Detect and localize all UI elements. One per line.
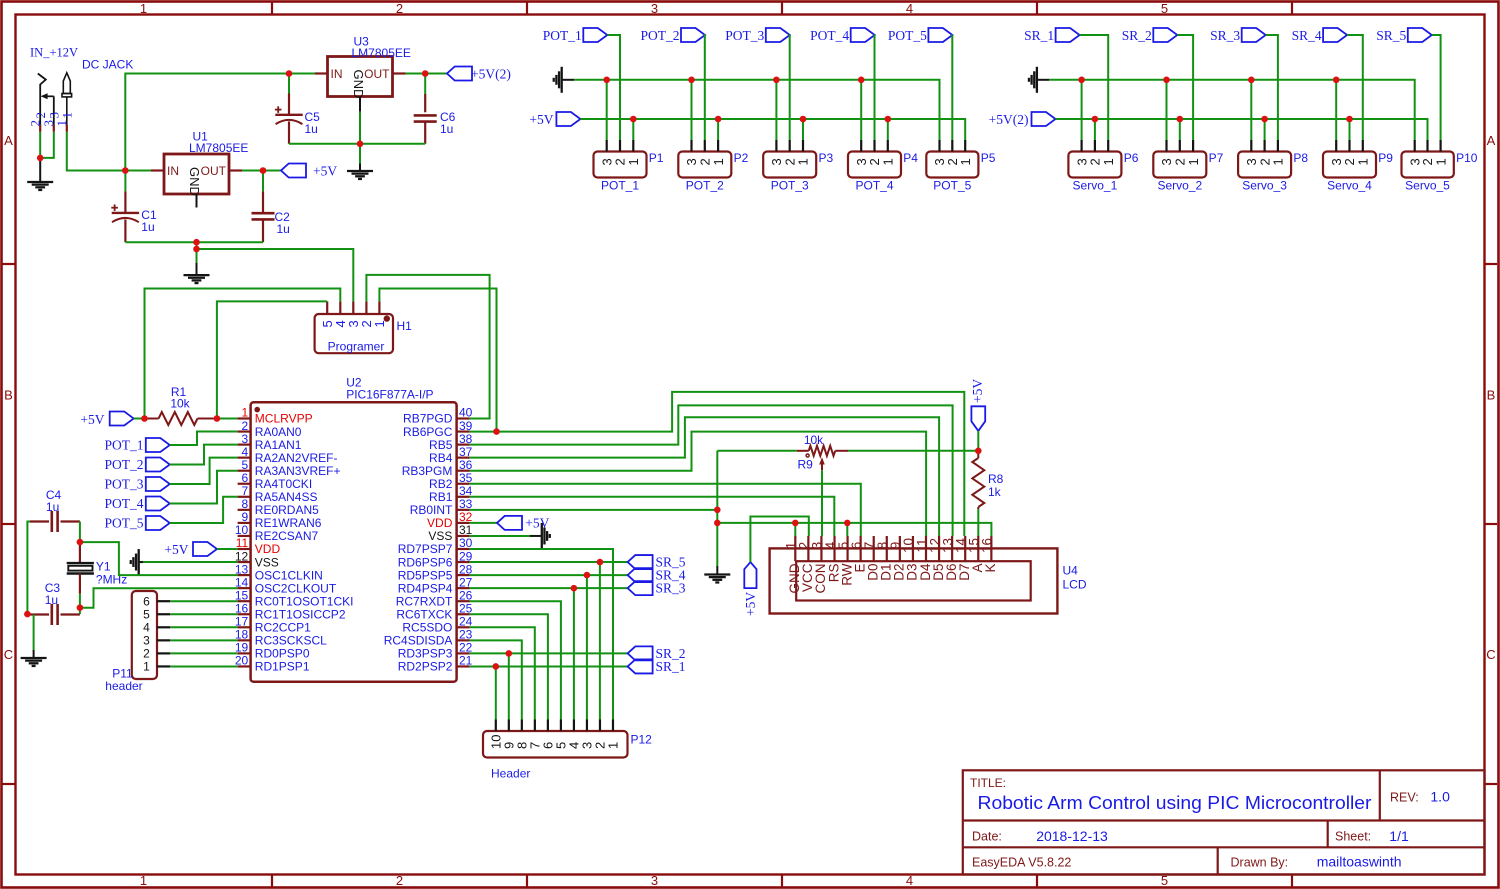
svg-text:3: 3	[651, 1, 658, 16]
svg-text:RD2PSP2: RD2PSP2	[398, 660, 453, 674]
svg-text:Date:: Date:	[972, 830, 1002, 844]
svg-text:POT_3: POT_3	[725, 28, 764, 43]
svg-text:IN: IN	[331, 67, 343, 81]
wire ground stem	[196, 242, 198, 263]
svg-text:+5V(2): +5V(2)	[471, 67, 511, 82]
wire P11 pin 4 to U2 pin 17	[170, 626, 237, 628]
svg-text:VSS: VSS	[255, 555, 279, 569]
svg-text:1u: 1u	[45, 593, 58, 607]
connector P11 header	[132, 591, 157, 679]
wire +5V(2) to P8 pin 2	[1264, 119, 1266, 140]
wire R9 right to +5V	[848, 450, 978, 452]
svg-text:P8: P8	[1293, 151, 1308, 165]
svg-text:OSC1CLKIN: OSC1CLKIN	[255, 568, 323, 582]
svg-text:B: B	[4, 388, 13, 403]
wire to LCD pin5 RW	[846, 523, 848, 536]
pin IN of U1	[151, 169, 164, 171]
pin GND of U1	[196, 194, 198, 208]
wire +5V to P4 pin 1	[887, 119, 889, 140]
svg-text:SR_3: SR_3	[656, 581, 686, 596]
wire U2 pin24 to P12 pin7	[470, 627, 535, 719]
svg-text:1: 1	[372, 320, 387, 327]
svg-text:+5V(2): +5V(2)	[989, 112, 1029, 127]
wire C4 right down to crystal	[79, 522, 81, 543]
svg-text:+5V: +5V	[525, 515, 549, 530]
svg-text:RE2CSAN7: RE2CSAN7	[255, 529, 319, 543]
pin OUT of U1	[229, 169, 242, 171]
wire U3 GND stem	[359, 112, 361, 144]
pin 21 of U2 (RD2PSP2)	[457, 665, 470, 667]
svg-text:1: 1	[1186, 158, 1201, 165]
svg-text:1u: 1u	[305, 122, 318, 136]
svg-text:POT_3: POT_3	[104, 477, 143, 492]
svg-text:POT_1: POT_1	[104, 438, 143, 453]
svg-text:1: 1	[242, 406, 249, 420]
connector P9 (Servo_4)	[1323, 152, 1376, 178]
wire +5V to U2 pin11	[217, 548, 238, 550]
svg-text:RC1T1OSICCP2: RC1T1OSICCP2	[255, 607, 346, 621]
svg-text:2: 2	[396, 873, 403, 888]
junction	[1261, 116, 1268, 123]
svg-text:RC0T1OSOT1CKI: RC0T1OSOT1CKI	[255, 594, 354, 608]
svg-text:R8: R8	[988, 472, 1004, 486]
pin 6 of P12	[547, 720, 549, 732]
svg-text:RB4: RB4	[429, 451, 453, 465]
svg-text:+5V: +5V	[529, 112, 553, 127]
wire OSC2 to U2 pin14	[80, 588, 238, 608]
wire U1 OUT to +5V	[242, 170, 281, 172]
connector P3 (POT_3)	[763, 152, 816, 178]
wire U2 pin26 to P12 pin5	[470, 601, 561, 719]
pin 7 of P12	[534, 720, 536, 732]
wire P11 pin 1 to U2 pin 20	[170, 665, 237, 667]
connector P10 (Servo_5)	[1402, 152, 1454, 178]
pin 1 of P12	[612, 720, 614, 732]
pin 2 of P11	[157, 652, 170, 654]
resistor R1 10k	[145, 418, 159, 420]
potentiometer R9 10k	[797, 450, 809, 452]
svg-text:IN_+12V: IN_+12V	[30, 46, 78, 60]
junction	[688, 77, 695, 84]
pin 3 of U4 (CON)	[820, 536, 822, 561]
connector P1 (POT_1)	[594, 152, 647, 178]
svg-text:DC JACK: DC JACK	[82, 58, 133, 72]
junction	[286, 70, 293, 77]
IC U2 PIC16F877A-I/P	[251, 402, 457, 682]
pin 5 of P12	[560, 720, 562, 732]
svg-text:5: 5	[143, 607, 150, 621]
pin 15 of U2 (RC0T1OSOT1CKI)	[238, 600, 251, 602]
svg-text:P3: P3	[819, 151, 834, 165]
ground	[716, 566, 718, 575]
svg-text:POT_2: POT_2	[104, 457, 143, 472]
svg-text:Programer: Programer	[328, 340, 385, 354]
wire P11 pin 2 to U2 pin 19	[170, 652, 237, 654]
wire U3 OUT to +5V(2)	[406, 73, 448, 75]
wire U2 pin21 to SR_1	[470, 665, 628, 667]
wire U2 pin25 to P12 pin6	[470, 614, 548, 719]
svg-text:P9: P9	[1378, 151, 1393, 165]
wire U2 pin39 to LCD D7	[470, 392, 965, 536]
crystal Y1	[79, 542, 81, 563]
wire U2 pin22 to SR_2	[470, 652, 628, 654]
junction	[493, 663, 500, 670]
wire ground to U2 pin12	[143, 561, 238, 563]
pin 11 of U2 (VDD)	[238, 548, 251, 550]
pin 2 of U4 (VCC)	[807, 536, 809, 561]
pin 8 of P12	[521, 720, 523, 732]
junction	[260, 167, 267, 174]
svg-text:2: 2	[143, 647, 150, 661]
ground (POT section)	[561, 67, 563, 93]
svg-text:Servo_3: Servo_3	[1242, 179, 1287, 193]
svg-text:P7: P7	[1209, 151, 1224, 165]
svg-text:EasyEDA V5.8.22: EasyEDA V5.8.22	[972, 856, 1071, 870]
svg-text:SR_3: SR_3	[1210, 28, 1240, 43]
svg-text:6: 6	[242, 471, 249, 485]
svg-text:RC6TXCK: RC6TXCK	[396, 607, 452, 621]
connector P7 (Servo_2)	[1153, 152, 1206, 178]
junction	[214, 415, 221, 422]
wire to P12 pin3	[586, 575, 588, 719]
ground at U2 pin12	[138, 549, 140, 575]
svg-text:RD4PSP4: RD4PSP4	[398, 581, 453, 595]
svg-text:1k: 1k	[988, 485, 1002, 499]
svg-text:1: 1	[140, 873, 147, 888]
net flag +5V (LCD VCC)	[744, 562, 756, 588]
pin 39 of U2 (RB6PGC)	[457, 430, 470, 432]
svg-text:Drawn By:: Drawn By:	[1231, 856, 1289, 870]
net flag +5V at U2 pin32	[470, 522, 497, 524]
svg-text:3: 3	[242, 432, 249, 446]
junction	[597, 559, 604, 566]
pin 3 of P12	[586, 720, 588, 732]
pin GND of U3	[359, 97, 361, 112]
svg-text:P2: P2	[734, 151, 749, 165]
wire R9 wiper to LCD CON	[821, 470, 823, 536]
wire C1-C2 ground bus	[125, 241, 263, 243]
wire SR_3 to P8 pin 1	[1266, 35, 1278, 140]
pin 8 of U4 (D1)	[886, 536, 888, 561]
pin 18 of U2 (RC3SCKSCL)	[238, 639, 251, 641]
svg-text:10k: 10k	[170, 397, 190, 411]
wire U2 pin27 to SR_3	[470, 587, 628, 589]
wire ground to P7 pin 3	[1166, 80, 1168, 140]
pin 13 of U2 (OSC1CLKIN)	[238, 574, 251, 576]
wire U2 pin28 to SR_4	[470, 574, 628, 576]
junction	[975, 448, 982, 455]
pin 4 of U2 (RA2AN2VREF-)	[238, 457, 251, 459]
wire +5V to P3 pin 1	[802, 119, 804, 140]
svg-text:RB0INT: RB0INT	[410, 503, 453, 517]
regulator U1 LM7805EE	[164, 154, 229, 194]
wire U2 pin35 to LCD E	[470, 484, 861, 536]
pin 13 of U4 (D6)	[951, 536, 953, 561]
pin 26 of U2 (RC7RXDT)	[457, 600, 470, 602]
wire U2 pin36 to LCD D4	[470, 432, 926, 536]
wire ground to P3 pin 3	[775, 80, 777, 140]
junction	[506, 650, 513, 657]
pin 2 of U2 (RA0AN0)	[238, 430, 251, 432]
svg-text:RA3AN3VREF+: RA3AN3VREF+	[255, 464, 341, 478]
pin 10 of U4 (D3)	[912, 536, 914, 561]
wire POT_4 to P4 pin 2	[874, 35, 876, 140]
wire SR_2 to P7 pin 1	[1177, 35, 1193, 140]
wire C5-C6 ground bus	[289, 143, 425, 145]
junction	[493, 428, 500, 435]
svg-text:RD5PSP5: RD5PSP5	[398, 568, 453, 582]
svg-text:+5V: +5V	[313, 164, 337, 179]
svg-text:OUT: OUT	[201, 164, 227, 178]
wire ground to P4 pin 3	[860, 80, 862, 140]
pin 19 of U2 (RD0PSP0)	[238, 652, 251, 654]
svg-text:+5V: +5V	[743, 592, 758, 616]
svg-text:10: 10	[235, 523, 249, 537]
pin IN of U3	[315, 72, 328, 74]
pin 3 of U2 (RA1AN1)	[238, 444, 251, 446]
wire POT_3 to P3 pin 2	[789, 35, 791, 140]
ground	[359, 164, 361, 172]
junction	[193, 239, 200, 246]
svg-text:RA2AN2VREF-: RA2AN2VREF-	[255, 451, 338, 465]
svg-text:POT_2: POT_2	[686, 179, 724, 193]
net flag SR_2 (at U2)	[628, 646, 653, 660]
wire R8 to LCD A	[977, 509, 979, 536]
connector P2 (POT_2)	[678, 152, 731, 178]
pin 7 of U2 (RA5AN4SS)	[238, 496, 251, 498]
wire POT_5 to U2 pin 7	[170, 497, 238, 523]
svg-text:P12: P12	[631, 733, 653, 747]
svg-text:1/1: 1/1	[1389, 828, 1409, 844]
wire to P12 pin10	[495, 666, 497, 719]
wire +5V to P2 pin 1	[717, 119, 719, 140]
wire LCD ground bus	[717, 523, 991, 536]
wire ground to P9 pin 3	[1335, 80, 1337, 140]
pin 4 of U4 (RS)	[833, 536, 835, 561]
svg-text:1: 1	[626, 158, 641, 165]
pin 3 of DC JACK	[53, 125, 55, 132]
pin 9 of P12	[508, 720, 510, 732]
junction	[630, 116, 637, 123]
pin 38 of U2 (RB5)	[457, 444, 470, 446]
wire H1 pin4 to R1 left / +5V net	[145, 289, 341, 419]
svg-text:VDD: VDD	[255, 542, 281, 556]
svg-text:RD0PSP0: RD0PSP0	[255, 647, 310, 661]
pin 16 of U2 (RC1T1OSICCP2)	[238, 613, 251, 615]
wire to P12 pin9	[508, 653, 510, 719]
wire H1 pin2 to U2 pin40 (PGD)	[366, 275, 489, 419]
net flag +5V at U1 output	[281, 164, 306, 178]
junction	[885, 116, 892, 123]
junction	[1092, 116, 1099, 123]
wire ground to P2 pin 3	[691, 80, 693, 140]
wire SR_4 to P9 pin 1	[1347, 35, 1363, 140]
svg-text:1: 1	[1356, 158, 1371, 165]
wire +5V bus (POT section)	[580, 119, 965, 140]
pin OUT of U3	[393, 72, 406, 74]
regulator U3 LM7805EE	[328, 57, 393, 97]
svg-text:SR_1: SR_1	[1024, 28, 1054, 43]
wire ground to P1 pin 3	[606, 80, 608, 140]
wire POT_3 to U2 pin 4	[170, 458, 238, 484]
pin 12 of U2 (VSS)	[238, 561, 251, 563]
svg-text:6: 6	[143, 594, 150, 608]
svg-text:4: 4	[906, 873, 913, 888]
connector H1 Programer	[315, 314, 393, 353]
pin 14 of U2 (OSC2CLKOUT)	[238, 587, 251, 589]
pin 1 of U2 (MCLRVPP)	[238, 417, 251, 419]
wire SR_5 to P10 pin 1	[1432, 35, 1441, 140]
pin 33 of U2 (RB0INT)	[457, 509, 470, 511]
wire POT ground bus	[574, 80, 939, 140]
wire U2 pin37 to LCD D5	[470, 417, 939, 536]
svg-text:LM7805EE: LM7805EE	[189, 141, 248, 155]
svg-text:1: 1	[143, 660, 150, 674]
svg-text:+5V: +5V	[164, 542, 188, 557]
svg-text:11: 11	[236, 536, 249, 550]
ground (servo section)	[1036, 67, 1038, 93]
svg-text:1u: 1u	[440, 122, 453, 136]
junction	[422, 70, 429, 77]
svg-text:9: 9	[242, 510, 249, 524]
svg-text:P4: P4	[903, 151, 918, 165]
pin 6 of U2 (RA4T0CKI)	[238, 483, 251, 485]
wire U2 pin38 to LCD D6	[470, 405, 953, 536]
pin 15 of U4 (A)	[977, 536, 979, 561]
wire POT_1 to U2 pin 2	[170, 432, 238, 445]
svg-text:TITLE:: TITLE:	[970, 776, 1006, 790]
wire +12V input net	[67, 74, 315, 171]
wire +5V(2) bus (servo section)	[1056, 119, 1428, 140]
svg-text:RA4T0CKI: RA4T0CKI	[255, 477, 312, 491]
pin 20 of U2 (RD1PSP1)	[238, 665, 251, 667]
svg-text:3: 3	[651, 873, 658, 888]
svg-text:MCLRVPP: MCLRVPP	[255, 412, 313, 426]
svg-text:1: 1	[1101, 158, 1116, 165]
svg-text:1: 1	[881, 158, 896, 165]
svg-text:VSS: VSS	[428, 529, 452, 543]
connector P4 (POT_4)	[848, 152, 901, 178]
pin 9 of U2 (RE1WRAN6)	[238, 522, 251, 524]
capacitor C2	[262, 171, 264, 192]
svg-text:SR_4: SR_4	[1292, 28, 1322, 43]
wire +5V to R1	[134, 418, 145, 420]
svg-text:1u: 1u	[277, 222, 290, 236]
svg-text:Y1: Y1	[96, 560, 111, 574]
wire ground to P8 pin 3	[1250, 80, 1252, 140]
connector P5 (POT_5)	[926, 152, 978, 178]
wire servo ground bus	[1049, 80, 1414, 140]
junction	[193, 246, 200, 253]
ground	[39, 158, 41, 182]
ground	[33, 650, 35, 658]
pin 40 of U2 (RB7PGD)	[457, 417, 470, 419]
svg-text:POT_1: POT_1	[543, 28, 582, 43]
wire R1 to U2 pin1 (MCLR)	[217, 418, 238, 420]
svg-text:5: 5	[242, 458, 249, 472]
net flag +5V (above R8)	[971, 406, 985, 431]
net flag SR_4 (at U2)	[628, 568, 653, 582]
svg-text:R9: R9	[798, 458, 814, 472]
junction	[844, 520, 851, 527]
svg-text:SR_1: SR_1	[656, 659, 686, 674]
wire U2 pin33 to ground node	[470, 509, 718, 511]
pin 32 of U2 (VDD)	[457, 522, 470, 524]
svg-text:1: 1	[958, 158, 973, 165]
svg-text:POT_4: POT_4	[104, 496, 143, 511]
svg-text:RC2CCP1: RC2CCP1	[255, 621, 311, 635]
junction	[1163, 77, 1170, 84]
svg-text:REV:: REV:	[1390, 791, 1419, 805]
pin 16 of U4 (K)	[990, 536, 992, 561]
pin 34 of U2 (RB1)	[457, 496, 470, 498]
net flag SR_3 (at U2)	[628, 581, 653, 595]
svg-text:16: 16	[980, 538, 995, 553]
junction	[858, 77, 865, 84]
pin 27 of U2 (RD4PSP4)	[457, 587, 470, 589]
svg-text:1u: 1u	[141, 220, 154, 234]
wire to P12 pin2	[599, 562, 601, 719]
svg-text:RD6PSP6: RD6PSP6	[398, 555, 453, 569]
junction	[1248, 77, 1255, 84]
svg-text:GND: GND	[187, 167, 202, 196]
pin 23 of U2 (RC4SDISDA)	[457, 639, 470, 641]
svg-text:RC7RXDT: RC7RXDT	[396, 594, 453, 608]
svg-text:1: 1	[1433, 158, 1448, 165]
svg-text:U4: U4	[1063, 564, 1079, 578]
svg-text:P1: P1	[649, 151, 664, 165]
pin 22 of U2 (RD3PSP3)	[457, 652, 470, 654]
wire ground stem (LCD)	[716, 523, 718, 566]
wire U2 pin34 to LCD RS	[470, 497, 835, 536]
svg-text:RB6PGC: RB6PGC	[403, 425, 453, 439]
capacitor C5	[288, 74, 290, 94]
svg-text:RA1AN1: RA1AN1	[255, 438, 302, 452]
svg-text:1: 1	[796, 158, 811, 165]
svg-text:+5V: +5V	[970, 379, 985, 403]
wire P11 pin 5 to U2 pin 16	[170, 613, 237, 615]
pin 1 of DC JACK	[66, 125, 68, 132]
svg-text:RB2: RB2	[429, 477, 453, 491]
svg-text:10k: 10k	[804, 433, 824, 447]
svg-text:RE0RDAN5: RE0RDAN5	[255, 503, 319, 517]
svg-text:POT_4: POT_4	[855, 179, 893, 193]
svg-text:1: 1	[1271, 158, 1286, 165]
wire to P12 pin4	[573, 588, 575, 719]
pin 4 of P11	[157, 626, 170, 628]
svg-text:RB1: RB1	[429, 490, 453, 504]
svg-text:POT_5: POT_5	[104, 516, 143, 531]
IC U4 LCD	[770, 548, 1058, 613]
pin 31 of U2 (VSS)	[457, 535, 470, 537]
svg-text:2: 2	[242, 419, 249, 433]
junction	[773, 77, 780, 84]
junction	[792, 520, 799, 527]
svg-text:VDD: VDD	[427, 516, 453, 530]
svg-text:+5V: +5V	[80, 412, 104, 427]
wire U2 pin29 to SR_5	[470, 561, 628, 563]
svg-text:mailtoaswinth: mailtoaswinth	[1317, 854, 1402, 870]
wire +5V(2) to P6 pin 2	[1094, 119, 1096, 140]
svg-text:4: 4	[143, 621, 150, 635]
wire R9 left lead	[717, 450, 796, 452]
resistor R8 1k	[977, 451, 979, 458]
pin 9 of U4 (D2)	[899, 536, 901, 561]
capacitor C4	[30, 520, 49, 522]
svg-text:RE1WRAN6: RE1WRAN6	[255, 516, 322, 530]
net flag SR_1 (at U2)	[628, 659, 653, 673]
junction	[603, 77, 610, 84]
